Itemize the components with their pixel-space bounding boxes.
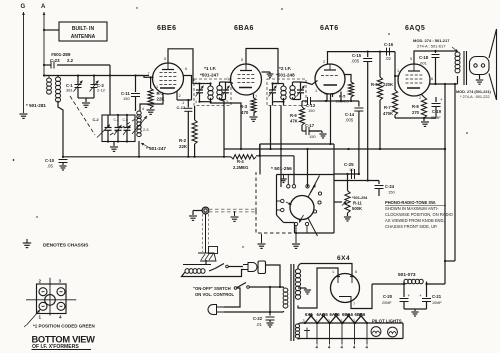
pin 5 label 6AQ5 (410, 57, 412, 61)
switch rotor arrow top radial (311, 184, 316, 193)
on-off switch label (193, 286, 235, 297)
pin 5 label 6BE6 (164, 57, 166, 61)
variable capacitor C-2 (93, 115, 112, 143)
pin 4 label osc coil (142, 107, 144, 111)
IF1 secondary trimmer (222, 82, 230, 100)
wire tone line (334, 179, 379, 181)
arrow to pin 1 (24, 310, 40, 327)
svg-text:R-6: R-6 (371, 82, 378, 87)
pin 4 label heater 6AT6 (341, 345, 344, 350)
svg-text:CHASSIS FRONT SIDE, UP.: CHASSIS FRONT SIDE, UP. (385, 224, 437, 229)
switch contact stub 1 (287, 175, 290, 189)
svg-text:+: + (408, 293, 411, 298)
label number 1 IF (204, 66, 216, 72)
svg-text:C-14: C-14 (345, 112, 355, 117)
label C-25 10 (344, 162, 354, 172)
svg-text:1: 1 (156, 85, 158, 89)
pin 4 lead heater 6BA6 (354, 323, 356, 345)
svg-text:BUILT- IN: BUILT- IN (72, 26, 95, 32)
svg-text:AS VIEWED FROM KNOB END,: AS VIEWED FROM KNOB END, (385, 218, 445, 223)
svg-text:*501-248: *501-248 (276, 73, 295, 78)
svg-text:.005: .005 (351, 59, 360, 64)
ground below gang (110, 142, 118, 152)
svg-text:22K: 22K (157, 97, 166, 102)
wire AVC bus (62, 156, 231, 158)
svg-text:6BA6: 6BA6 (342, 312, 354, 317)
dashed gang coupling line (70, 96, 140, 135)
svg-text:3: 3 (59, 279, 62, 284)
svg-text:R-8: R-8 (412, 104, 419, 109)
capacitor C-11 150 signal grid (121, 76, 140, 112)
wire 6BE6 plate riser (168, 49, 200, 84)
wire C-17 to ground (309, 131, 322, 133)
pin 2 label 6BE6 (179, 94, 181, 98)
wire junction pin2 pin6 (177, 99, 192, 101)
pin 4 label heater 6BE6 (366, 345, 369, 350)
pin 1 label 6AQ5 (397, 69, 399, 73)
svg-text:* 501-281: * 501-281 (26, 103, 46, 108)
svg-text:* 501-247: * 501-247 (146, 146, 166, 151)
svg-text:2: 2 (39, 279, 42, 284)
built-in antenna box (59, 22, 107, 41)
node G antenna ground terminal with arrow (21, 4, 26, 113)
rotary switch rotor (290, 196, 314, 220)
wire line B upper (260, 143, 334, 145)
phono connector hatched (198, 247, 218, 262)
bottom view pin 3 (57, 288, 65, 296)
wire IF1 secondary return to AVC (220, 100, 225, 157)
6X4 cathode (339, 297, 351, 300)
bottom view crosshair (26, 278, 76, 316)
svg-text:6BE6: 6BE6 (157, 25, 177, 32)
svg-text:C-4: C-4 (114, 118, 119, 122)
ground on shield line (231, 211, 239, 221)
svg-text:270: 270 (412, 110, 420, 115)
antenna coil T1 secondary (56, 76, 61, 103)
switch rotor arrow bottom (299, 215, 304, 223)
switch radial arm bottom (308, 218, 318, 236)
svg-text:*2 I.F.: *2 I.F. (279, 66, 291, 72)
svg-text:C-19: C-19 (432, 109, 442, 114)
IF transformer T3 dashed can (267, 79, 306, 106)
svg-text:R-9: R-9 (290, 113, 297, 118)
pin digit 2 (39, 279, 42, 284)
ground below C-17 (319, 134, 326, 138)
wire switch to volume wiper (334, 201, 342, 203)
power transformer center tap (298, 288, 306, 289)
label position coded green (33, 324, 95, 329)
ground right of 6BA6 (267, 74, 274, 78)
svg-text:381: 381 (66, 88, 73, 93)
6X4 plate 2 (350, 277, 354, 284)
svg-text:2-12: 2-12 (97, 88, 106, 93)
wire choke return to interlock plug (182, 270, 244, 277)
svg-text:4: 4 (142, 107, 144, 111)
svg-text:DENOTES CHASSIS: DENOTES CHASSIS (43, 243, 89, 249)
svg-text:6BE6: 6BE6 (355, 312, 366, 317)
speaker cone (489, 29, 497, 100)
svg-text:CLOCKWISE POSITION, ON RADIO: CLOCKWISE POSITION, ON RADIO (385, 212, 453, 217)
svg-text:220K: 220K (383, 82, 393, 87)
interlock plug male (243, 263, 257, 272)
capacitor C-16 .02 coupling (384, 42, 394, 61)
shielded lead down (203, 214, 209, 253)
svg-text:5: 5 (410, 57, 412, 61)
bottom view pin 4 (57, 302, 65, 310)
svg-text:1: 1 (315, 89, 317, 93)
svg-text:MOD. 274 (501-221): MOD. 274 (501-221) (456, 90, 492, 94)
switch note text (385, 200, 453, 229)
switch contact right 1 (313, 210, 316, 213)
tube V3 6AT6 (315, 25, 345, 94)
IF transformer bottom view square (37, 284, 67, 314)
wire 6BE6 screen pin 6 (183, 76, 192, 101)
capacitor C-23 (43, 62, 110, 69)
switch wafer outline (277, 144, 335, 233)
power transformer core (291, 264, 294, 341)
svg-text:OF I.F. X'FORMERS: OF I.F. X'FORMERS (32, 344, 79, 350)
svg-text:+: + (419, 293, 422, 298)
svg-text:2.2: 2.2 (67, 58, 74, 63)
pin 2-3 label osc coil (143, 128, 149, 132)
label pilot lights (372, 319, 402, 324)
capacitor C-10 .05 AVC bypass (45, 157, 68, 169)
wire 6BE6 cathode pin 2 down (176, 92, 178, 101)
svg-text:PHONO-RADIO-TONE SW.: PHONO-RADIO-TONE SW. (385, 200, 436, 205)
resistor R-1 22K (148, 76, 165, 109)
wire corner up to line B (259, 144, 261, 156)
svg-text:R-3: R-3 (240, 104, 248, 109)
power transformer HV bottom lead (298, 306, 303, 309)
pin 3 label heater 6AT6 (328, 319, 330, 323)
resistor R-5 diode load (336, 75, 354, 104)
label 501-281 antenna coil (26, 103, 46, 108)
svg-text:C-23: C-23 (50, 58, 60, 63)
svg-text:3: 3 (303, 319, 305, 323)
label output transformer part numbers (413, 38, 458, 52)
wire antenna top rail (43, 74, 149, 76)
pin 7 label 6BE6 (148, 72, 150, 76)
IF2 primary trimmer (269, 84, 277, 102)
ground below R-3 (250, 117, 258, 121)
svg-text:47K: 47K (290, 119, 298, 124)
capacitor C-15 .005 (351, 52, 372, 181)
label bottom view (32, 335, 96, 345)
switch contact stub 2 (292, 185, 295, 188)
wire HV top to 6X4 plate 2 (301, 264, 353, 277)
label speaker part numbers (456, 90, 492, 99)
line filter choke (183, 265, 215, 274)
svg-text:#501-289: #501-289 (51, 52, 71, 57)
wire 6AT6 plate line (328, 51, 396, 65)
wire switch node to primary (269, 286, 281, 312)
tube V5 6X4 (331, 255, 360, 303)
wire antenna box to A line (43, 29, 59, 31)
wire C-23 branch down to coil top (109, 65, 111, 76)
IF1 secondary winding (217, 82, 226, 100)
pin 6 label 6AQ5 (431, 77, 433, 81)
svg-text:1: 1 (227, 77, 229, 81)
pin 4 label heater 6BA6 (353, 345, 356, 350)
svg-text:PILOT LIGHTS: PILOT LIGHTS (372, 319, 402, 324)
wire 6BE6 osc grid to coil (140, 93, 163, 111)
ground left of jack (189, 216, 197, 220)
wire AVC bus to wafer (256, 155, 294, 185)
wire IF2 secondary top to 6AT6 grid (301, 81, 318, 85)
svg-text:6BA6: 6BA6 (234, 25, 254, 32)
svg-text:274-A : 501-617: 274-A : 501-617 (417, 44, 446, 49)
wire IF1 secondary top to 6BA6 grid (226, 82, 234, 84)
pin digits IF1 (195, 80, 230, 104)
pin 3 label heater 6X4 (303, 319, 305, 323)
wire 6BE6 signal grid (136, 76, 154, 78)
svg-text:.005: .005 (345, 118, 354, 123)
bottom view pin 2 (39, 288, 47, 296)
pin 5 label 6BA6 (241, 58, 243, 62)
oscillator coil 501-247 (137, 111, 141, 157)
pin 1 label 6BA6 (227, 77, 229, 81)
svg-text:*501-247: *501-247 (200, 73, 219, 78)
tube V4 6AQ5 (398, 25, 430, 96)
wire HV bottom to 6X4 plate 1 (303, 268, 338, 308)
svg-text:6AT6: 6AT6 (320, 25, 339, 32)
pin 7 label 6X4 (353, 302, 355, 306)
wire IF2 primary bottom down (271, 102, 273, 149)
resistor R-2 22K (179, 106, 197, 157)
antenna coil T1 primary (44, 76, 51, 95)
wire cathode bottom rail (395, 97, 436, 121)
wire plug line 2 (224, 311, 271, 313)
svg-text:10: 10 (349, 167, 354, 172)
svg-text:* 501-256: * 501-256 (271, 166, 292, 172)
svg-text:150: 150 (388, 190, 395, 195)
svg-text:*1 POSITION CODED GREEN: *1 POSITION CODED GREEN (33, 324, 95, 329)
capacitor C-13 150 (302, 97, 318, 113)
power transformer primary (270, 287, 288, 312)
pin 4 lead heater 6AT6 (341, 323, 343, 345)
svg-text:C-15: C-15 (352, 53, 362, 58)
tuning gang box (102, 115, 135, 142)
pin digit 3 (59, 279, 62, 284)
node A antenna terminal with arrow (41, 4, 46, 75)
pin digit 1 (39, 315, 42, 320)
svg-text:*1 I.F.: *1 I.F. (204, 66, 216, 72)
switch contact right 2 (318, 201, 321, 204)
pin 4 label heater 6X4 (316, 345, 319, 350)
svg-text:6AQ5: 6AQ5 (317, 312, 329, 317)
tube V1 6BE6 (153, 25, 184, 94)
wire filter cap common (404, 309, 427, 311)
svg-text:470K: 470K (383, 111, 393, 116)
wire B+ output transformer vertical (444, 84, 455, 262)
power transformer heater winding (295, 323, 300, 339)
bottom view pin 1 (39, 302, 47, 310)
svg-text:ANTENNA: ANTENNA (71, 34, 96, 40)
wire 6BA6 plate riser (246, 49, 278, 84)
IF2 secondary winding (290, 82, 301, 100)
heater 6AQ5 (316, 314, 330, 324)
switch contact left 1 (277, 199, 284, 202)
trimmer capacitor C-1 (66, 76, 83, 99)
label 501-247 oscillator coil (141, 143, 166, 151)
svg-text:ON VOL. CONTROL: ON VOL. CONTROL (195, 292, 235, 297)
pin 4 lead heater 6X4 (316, 323, 318, 345)
svg-text:7: 7 (353, 302, 355, 306)
svg-text:SHOWN IN MAXIMUM ANTI-: SHOWN IN MAXIMUM ANTI- (385, 206, 439, 211)
pin 4 label heater 6AQ5 (328, 345, 331, 350)
6X4 plate 1 (336, 277, 340, 284)
label 501-247 IF1 (200, 73, 219, 78)
ground below wafer bottom (292, 233, 300, 248)
wire 6BA6 screen to ground (262, 72, 271, 74)
ground under G terminal (20, 114, 28, 118)
resistor R-8 270 cathode (412, 94, 427, 118)
power transformer HV secondary (295, 264, 300, 300)
svg-text:1: 1 (397, 69, 399, 73)
resistor R-6 220K plate load (371, 52, 393, 149)
switch contact stub 3 (306, 175, 309, 189)
switch contact right 3 (318, 192, 321, 195)
capacitor C-22 .01 (253, 312, 275, 327)
ground below voice coil (476, 80, 484, 84)
IF2 secondary trimmer (297, 82, 305, 100)
pilot light 1 (371, 327, 381, 337)
ground below R-8 (421, 122, 429, 126)
switch contact left 2 (277, 208, 284, 211)
wire IF1 primary bottom to B+ (211, 102, 242, 149)
svg-text:R-7: R-7 (384, 105, 391, 110)
svg-text:2: 2 (179, 94, 181, 98)
ground at center tap (304, 290, 311, 294)
wire B+ right vertical (444, 84, 446, 284)
svg-text:C-24: C-24 (385, 184, 395, 189)
capacitor C-24 150 (375, 181, 396, 197)
wire socket to transformer primary (266, 265, 284, 287)
switch contact bottom 1 (294, 222, 297, 234)
svg-text:5: 5 (241, 58, 243, 62)
heater center tap cross (304, 328, 310, 339)
svg-text:R-11: R-11 (353, 201, 363, 206)
svg-text:20MF: 20MF (382, 301, 392, 305)
wire heater return bottom (300, 323, 403, 339)
capacitor C-12 .1 (177, 100, 193, 157)
svg-text:.05: .05 (47, 164, 53, 169)
capacitor C-19 25MF (431, 97, 443, 120)
svg-text:501-073: 501-073 (398, 272, 416, 278)
svg-text:C-12: C-12 (177, 105, 186, 110)
AC plug (208, 305, 224, 315)
wire plug to on-off switch (224, 288, 240, 307)
dashed shield line to switch (209, 209, 256, 212)
svg-text:3: 3 (341, 319, 343, 323)
svg-text:C-5: C-5 (123, 118, 128, 122)
svg-text:C-16: C-16 (384, 42, 394, 47)
svg-text:+: + (440, 97, 443, 102)
wire secondary bottom to AVC bus (58, 101, 63, 157)
label number 2 IF (279, 66, 291, 72)
svg-text:6: 6 (431, 77, 433, 81)
svg-text:6: 6 (355, 270, 357, 274)
svg-text:2.2MEG: 2.2MEG (233, 165, 248, 170)
label 501-289 for C-23 (50, 52, 74, 63)
wire jack to ground (193, 211, 202, 216)
tube V2 6BA6 (231, 25, 262, 95)
resistor R-7 470K grid (383, 76, 398, 118)
ground symbol legend (23, 239, 31, 248)
IF1 primary trimmer (196, 84, 204, 102)
wire volume top line (334, 173, 360, 175)
svg-text:470: 470 (241, 110, 249, 115)
svg-text:4: 4 (59, 315, 62, 320)
ground below R-11 (344, 217, 351, 221)
svg-text:2: 2 (323, 60, 325, 64)
label denotes chassis (43, 243, 89, 249)
heater 6BA6 (341, 314, 355, 324)
svg-text:G: G (21, 4, 26, 10)
svg-text:C-10: C-10 (45, 158, 55, 163)
interlock socket female (258, 261, 266, 274)
pin 7 label 6BA6 (255, 95, 257, 99)
label 501-248 IF2 (276, 73, 295, 78)
heater 6AT6 (329, 314, 343, 324)
ground below R-1 (147, 110, 155, 114)
svg-text:R-4: R-4 (237, 159, 244, 164)
svg-text:2-3: 2-3 (143, 128, 149, 132)
pilot light 2 (388, 327, 398, 337)
svg-text:.01: .01 (256, 322, 262, 327)
svg-text:7: 7 (255, 95, 257, 99)
capacitor C-17 150 (302, 123, 320, 139)
svg-text:3: 3 (353, 319, 355, 323)
switch contact bottom 2 (305, 222, 308, 233)
output transformer core (464, 51, 467, 85)
bottom view center hole (45, 295, 56, 306)
svg-text:6AQ5: 6AQ5 (405, 25, 425, 32)
wire vertical into switch wafer A (259, 144, 261, 175)
volume wiper arrow (342, 201, 346, 206)
tube labels above heaters (305, 312, 366, 317)
svg-text:*501-294: *501-294 (352, 196, 368, 200)
capacitor C-14 .005 (345, 101, 363, 174)
ground below filter caps (411, 312, 418, 316)
capacitor C-20 20MF (382, 284, 411, 309)
svg-text:.001: .001 (419, 61, 428, 66)
wire gang feed from grid rail (109, 76, 111, 116)
volume control R-11 500K (345, 174, 350, 216)
pin 1 label 6AT6 (315, 89, 317, 93)
label R-11 volume (352, 196, 368, 211)
pin 6 label 6X4 (355, 270, 357, 274)
pin 2 label heater 6AQ5 (316, 319, 318, 323)
wire connector to choke (205, 260, 207, 265)
svg-text:6X4: 6X4 (305, 312, 313, 317)
svg-text:500K: 500K (352, 206, 362, 211)
svg-text:.02: .02 (385, 56, 391, 61)
resistor R-4 2.2MEG AVC (231, 155, 256, 170)
IF1 primary winding (198, 82, 213, 102)
svg-text:C-20: C-20 (383, 294, 393, 299)
svg-text:MOD. 274 : 501-217: MOD. 274 : 501-217 (413, 38, 450, 43)
wire C-16 to 6AQ5 grid (394, 52, 399, 78)
wire 6X4 cathode to filter (351, 284, 372, 309)
label of IF xformers (32, 344, 79, 350)
wire vertical into switch wafer B (280, 102, 284, 187)
svg-text:1: 1 (195, 81, 197, 85)
ground below C-1 C-3 (82, 103, 90, 107)
wire diode load node (318, 100, 359, 102)
svg-text:2: 2 (316, 319, 318, 323)
phono jack (202, 207, 209, 214)
